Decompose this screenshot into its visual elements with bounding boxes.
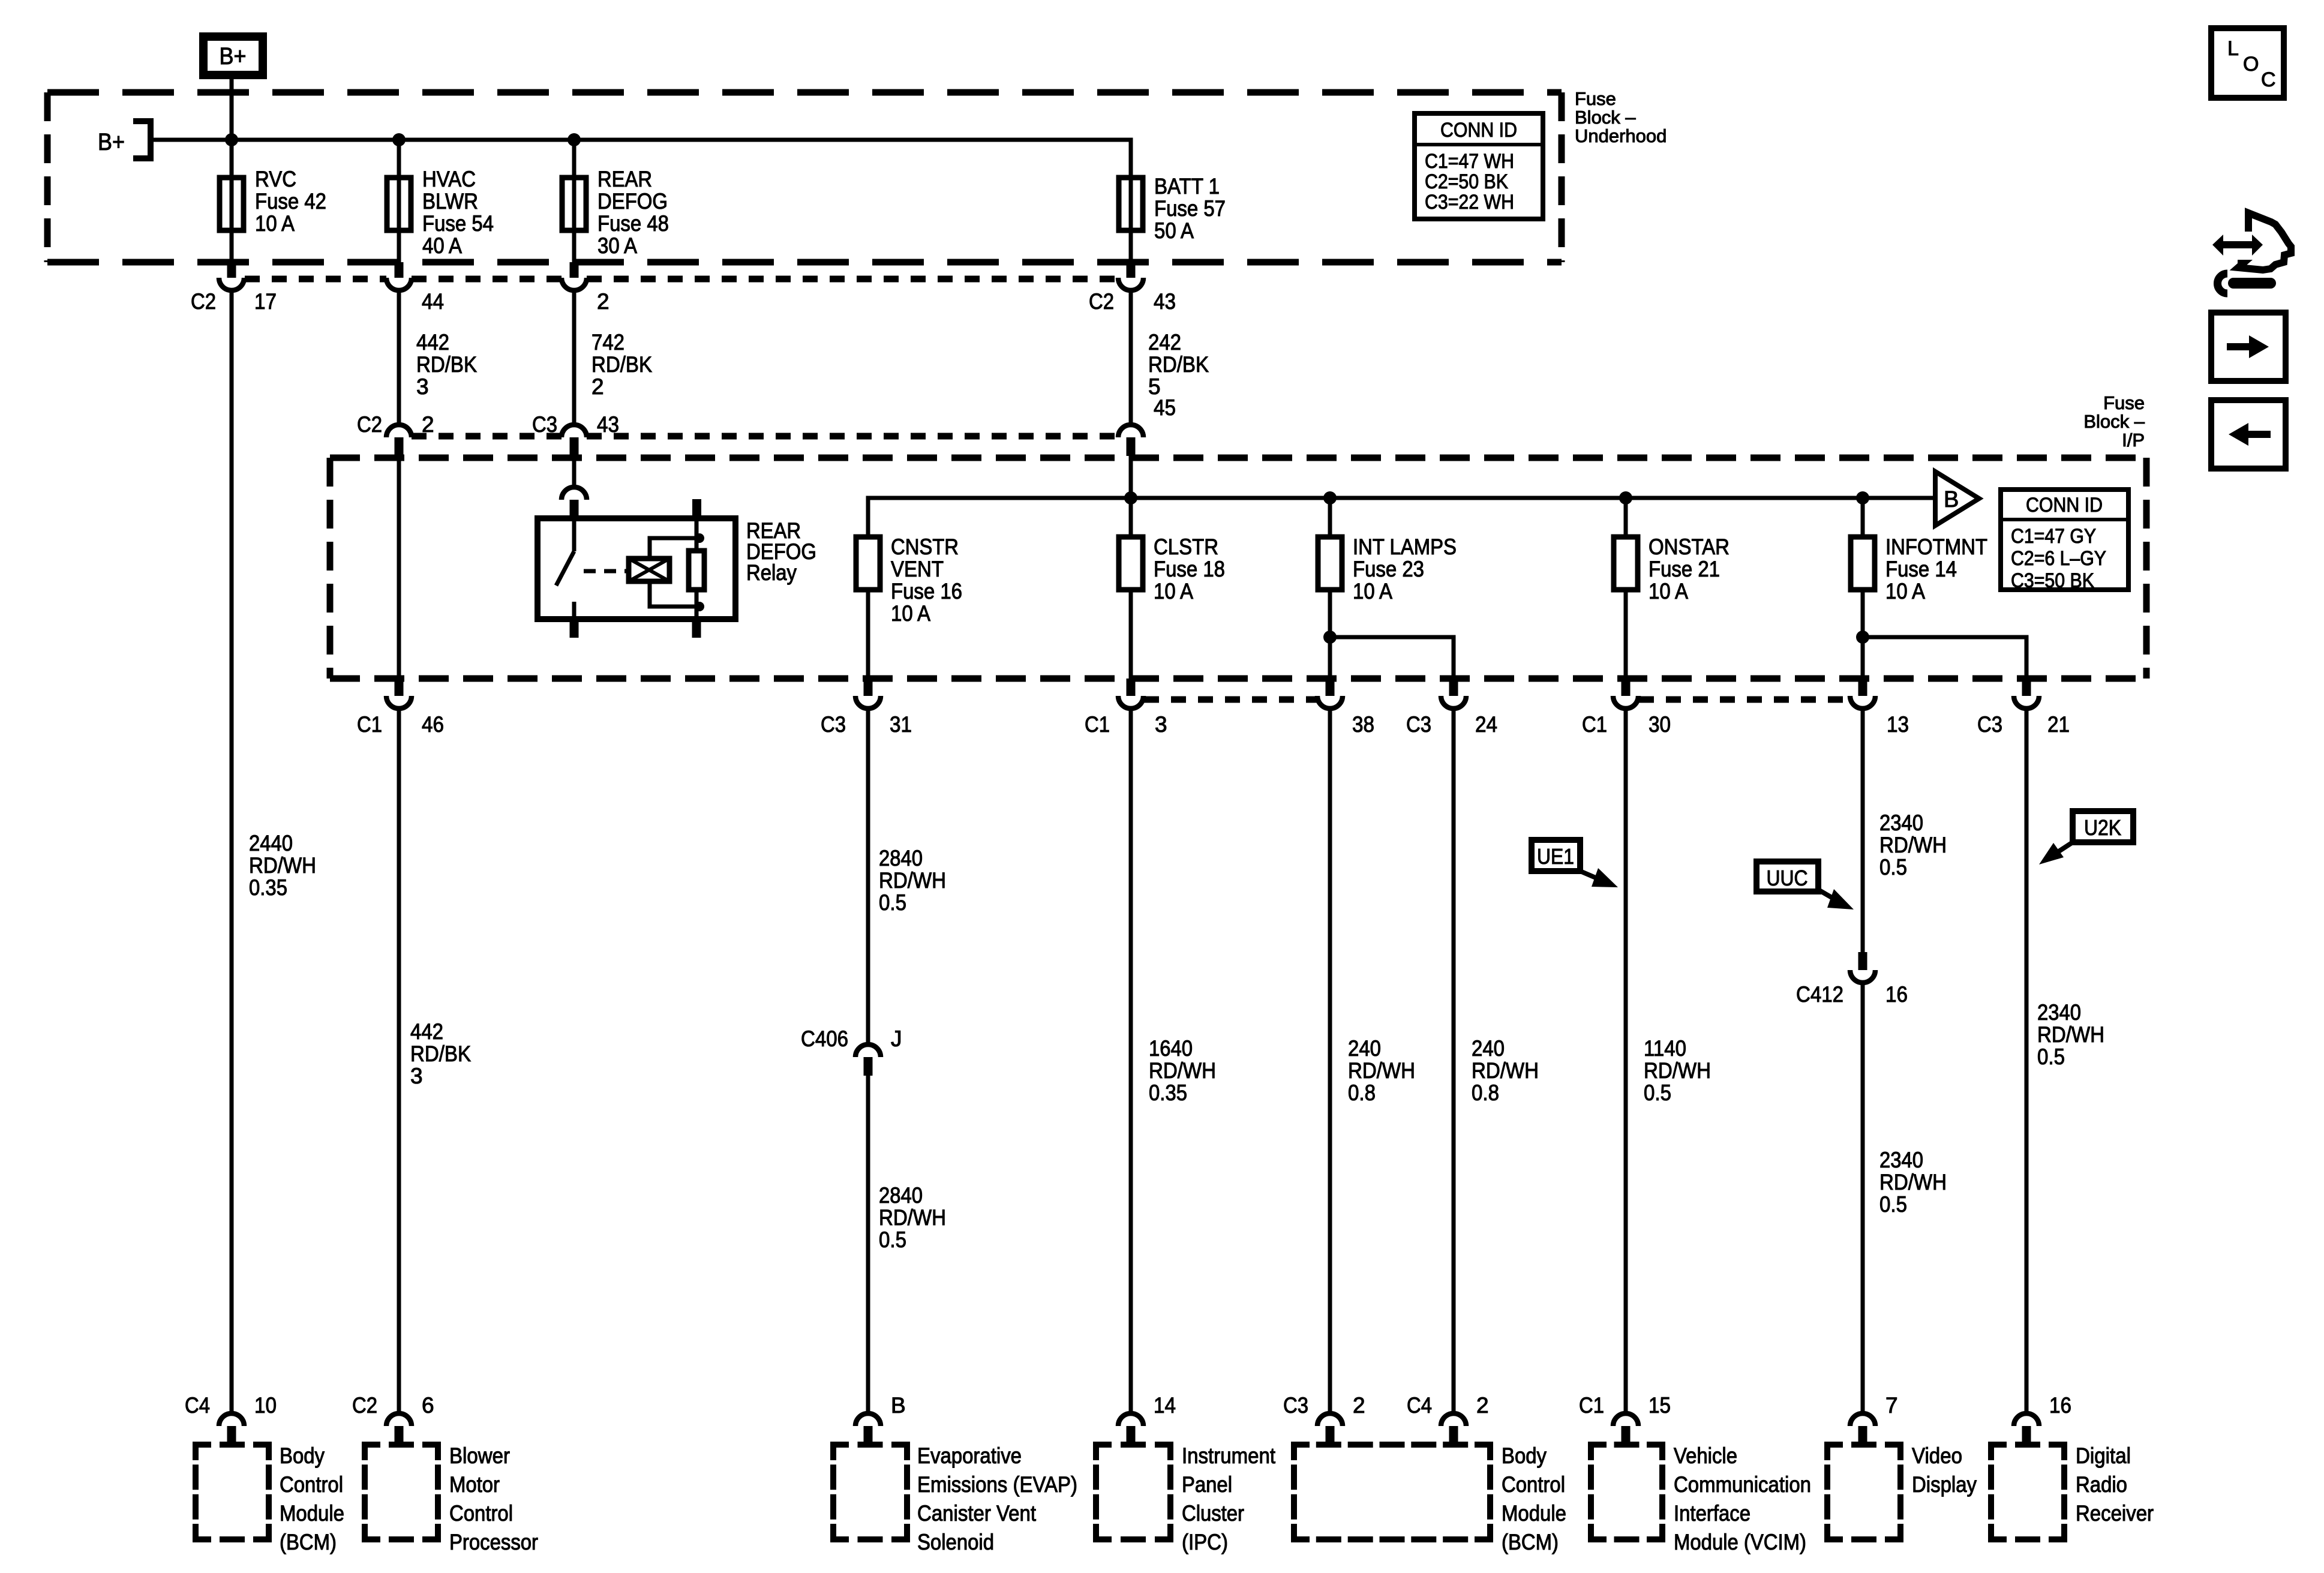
fuse BATT 1 Fuse 57 [1119,178,1143,230]
svg-text:Vehicle: Vehicle [1674,1443,1737,1468]
wire bus B+ [151,140,1131,178]
svg-text:U2K: U2K [2084,815,2121,840]
svg-text:1140: 1140 [1644,1036,1686,1061]
svg-text:2: 2 [422,412,434,437]
svg-text:24: 24 [1475,712,1497,737]
svg-text:J: J [891,1026,902,1051]
svg-text:CONN ID: CONN ID [2026,494,2103,517]
svg-text:Fuse: Fuse [1575,88,1616,109]
svg-text:C2: C2 [357,412,382,437]
connector dotted line row C2 underhood [245,276,386,283]
svg-text:2: 2 [597,289,609,314]
svg-text:Fuse 48: Fuse 48 [597,211,669,236]
svg-text:Fuse 16: Fuse 16 [891,579,962,604]
wire to rear defog relay [572,456,577,486]
connector C3 pin 43 [562,425,587,456]
svg-text:ONSTAR: ONSTAR [1649,535,1730,559]
svg-text:0.5: 0.5 [879,1227,906,1252]
fuse INFOTMNT [1851,537,1875,590]
svg-text:Module: Module [280,1501,344,1526]
svg-text:VENT: VENT [891,557,944,581]
svg-text:Fuse 14: Fuse 14 [1885,557,1957,581]
svg-text:10 A: 10 A [891,601,930,626]
svg-text:Body: Body [1502,1443,1547,1468]
svg-text:46: 46 [422,712,444,737]
module Body Control Module (BCM) right [1294,1445,1490,1539]
svg-text:2: 2 [591,374,604,399]
CONN ID table underhood [1415,113,1543,219]
svg-text:442: 442 [416,330,449,355]
svg-text:Canister Vent: Canister Vent [917,1501,1037,1526]
svg-text:CONN ID: CONN ID [1440,119,1517,142]
svg-text:10 A: 10 A [1885,579,1925,604]
connector dotted line row 2 I/P inline [412,433,562,440]
fuse CNSTR VENT [856,537,880,590]
relay REAR DEFOG [538,518,735,619]
svg-text:RD/WH: RD/WH [879,1205,946,1230]
junction bus/ONSTAR [1619,491,1632,505]
svg-text:C4: C4 [185,1393,210,1418]
fuse block I/P dashed box [330,455,2146,461]
svg-text:Fuse 18: Fuse 18 [1154,557,1225,581]
wire bus I/P battery feed [868,498,1935,537]
svg-text:RD/BK: RD/BK [416,352,477,377]
wire 2340 RD/WH to digital radio [2025,709,2029,1413]
svg-text:Interface: Interface [1674,1501,1750,1526]
svg-text:Fuse 23: Fuse 23 [1353,557,1424,581]
svg-text:(BCM): (BCM) [280,1530,337,1554]
svg-text:Emissions (EVAP): Emissions (EVAP) [917,1472,1077,1497]
module Body Control Module (BCM) left [196,1445,269,1539]
junction bus/REAR DEFOG [568,133,581,146]
svg-text:Relay: Relay [746,560,797,585]
wire bus to CLSTR fuse [1129,498,1133,537]
svg-text:(IPC): (IPC) [1182,1530,1228,1554]
connector C3 pin 31 [855,679,881,709]
svg-text:442: 442 [410,1019,443,1044]
svg-text:Underhood: Underhood [1575,125,1667,146]
relay stub pins [692,499,701,518]
svg-text:2340: 2340 [2037,1000,2081,1025]
wire circuit 442 RD/BK [397,290,401,425]
svg-text:10 A: 10 A [1649,579,1688,604]
wire RVC fuse column [230,140,234,262]
module EVAP Canister Vent Solenoid [833,1445,907,1539]
svg-text:0.5: 0.5 [1644,1080,1671,1105]
svg-text:C1=47 GY: C1=47 GY [2011,525,2096,548]
wire 2340 RD/WH upper [1861,709,1865,953]
svg-text:RD/WH: RD/WH [1149,1058,1216,1083]
wire INFOTMNT to connector 13 [1861,590,1865,679]
svg-text:Receiver: Receiver [2076,1501,2154,1526]
svg-text:31: 31 [890,712,912,737]
svg-text:Fuse 54: Fuse 54 [422,211,494,236]
svg-text:C1: C1 [1085,712,1110,737]
connector C1 pin 15 module [1613,1413,1638,1445]
wire INT LAMPS to connector 38 [1328,590,1332,679]
svg-text:RD/WH: RD/WH [1879,833,1947,857]
relay coil [629,559,669,581]
svg-text:UUC: UUC [1767,866,1808,890]
svg-text:Fuse: Fuse [2103,392,2145,413]
svg-text:30: 30 [1649,712,1671,737]
connector C2 pin 44 [386,262,412,290]
svg-text:16: 16 [1885,982,1908,1007]
svg-text:C2: C2 [191,289,216,314]
wire 1140 RD/WH to VCIM [1624,709,1628,1413]
svg-text:3: 3 [416,374,429,399]
svg-text:Blower: Blower [449,1443,510,1468]
svg-text:Block –: Block – [1575,107,1636,128]
svg-text:38: 38 [1352,712,1374,737]
connector C1 pin 30 [1613,679,1638,709]
svg-text:C1: C1 [357,712,382,737]
svg-text:B+: B+ [220,43,247,70]
wire HVAC BLWR fuse column [397,140,401,262]
wire INT LAMPS branch [1330,637,1454,679]
svg-text:13: 13 [1887,712,1909,737]
svg-text:C3: C3 [1406,712,1431,737]
svg-text:HVAC: HVAC [422,167,476,191]
wire 240 RD/WH to BCM C4 [1452,709,1456,1413]
svg-text:UE1: UE1 [1537,844,1574,869]
relay coil link dashed [584,569,629,574]
svg-text:50 A: 50 A [1154,218,1194,243]
fuse REAR DEFOG Fuse 48 [562,178,586,230]
connector C2 pin 43 [1118,262,1143,290]
svg-text:10 A: 10 A [1353,579,1392,604]
fuse CLSTR [1119,537,1143,590]
svg-text:Radio: Radio [2076,1472,2127,1497]
svg-text:0.5: 0.5 [879,890,906,915]
svg-text:RD/WH: RD/WH [2037,1022,2104,1047]
svg-text:2840: 2840 [879,846,923,870]
connector C1 pin 3 [1118,679,1143,709]
junction bus/CLSTR [1124,491,1137,505]
svg-text:B: B [1944,487,1959,512]
fuse HVAC BLWR Fuse 54 [387,178,411,230]
svg-text:3: 3 [1155,712,1167,737]
wire ONSTAR to connector [1624,590,1628,679]
wire 442 RD/BK to blower processor [397,709,401,1413]
svg-text:BLWR: BLWR [422,189,478,214]
svg-text:1640: 1640 [1149,1036,1193,1061]
svg-text:RD/BK: RD/BK [591,352,652,377]
connector dotted line row 3 [1144,697,1317,703]
svg-text:RD/WH: RD/WH [1644,1058,1711,1083]
svg-text:0.8: 0.8 [1472,1080,1499,1105]
svg-text:10: 10 [254,1393,277,1418]
B+ battery feed box [203,37,263,75]
svg-text:O: O [2243,53,2259,76]
module Instrument Panel Cluster (IPC) [1096,1445,1170,1539]
svg-text:CLSTR: CLSTR [1154,535,1218,559]
module Digital Radio Receiver [1991,1445,2064,1539]
svg-text:C3=22 WH: C3=22 WH [1425,191,1514,214]
connector C3 pin 24 [1441,679,1466,709]
svg-text:Block –: Block – [2083,411,2145,432]
svg-text:Evaporative: Evaporative [917,1443,1022,1468]
connector C412 pin 16 [1850,952,1875,983]
svg-text:CNSTR: CNSTR [891,535,959,559]
wire 1640 RD/WH to IPC [1129,709,1133,1413]
svg-text:2: 2 [1353,1393,1365,1418]
svg-text:INFOTMNT: INFOTMNT [1885,535,1987,559]
wire INFOTMNT branch [1863,637,2026,679]
svg-text:44: 44 [422,289,444,314]
svg-text:0.35: 0.35 [249,875,287,900]
svg-text:DEFOG: DEFOG [597,189,668,214]
wire REAR DEFOG fuse column [572,140,577,262]
connector C2 pin 2 (I/P) [386,425,412,456]
svg-text:742: 742 [591,330,624,355]
fuse block underhood dashed box [47,89,1562,96]
icon arrow left box [2211,400,2286,469]
svg-text:C3: C3 [821,712,846,737]
svg-text:Control: Control [1502,1472,1565,1497]
connector pin B module [855,1413,881,1445]
junction bus/HVAC BLWR [392,133,406,146]
svg-text:C3=50 BK: C3=50 BK [2011,569,2094,592]
svg-text:43: 43 [597,412,619,437]
tag UE1 [1532,840,1580,871]
svg-text:C: C [2261,68,2276,91]
connector pin 7 module [1850,1413,1875,1445]
svg-text:INT LAMPS: INT LAMPS [1353,535,1457,559]
svg-text:2340: 2340 [1879,1148,1923,1172]
svg-text:I/P: I/P [2122,430,2145,451]
connector C4 pin 10 module [219,1413,244,1445]
connector C3 pin 21 [2014,679,2039,709]
junction bus/INFOTMNT [1856,491,1869,505]
svg-text:Panel: Panel [1182,1472,1232,1497]
svg-text:Fuse 42: Fuse 42 [255,189,326,214]
svg-text:16: 16 [2049,1393,2071,1418]
connector pin 38 [1317,679,1343,709]
svg-text:C1=47 WH: C1=47 WH [1425,150,1514,173]
connector relay pin 30 [562,487,587,518]
connector C2 pin 6 module [386,1413,412,1445]
tag UUC [1756,861,1818,891]
svg-text:Display: Display [1912,1472,1977,1497]
svg-text:2: 2 [1476,1393,1489,1418]
fuse ONSTAR [1614,537,1638,590]
svg-text:C3: C3 [1283,1393,1308,1418]
module Blower Motor Control Processor [365,1445,438,1539]
svg-text:30 A: 30 A [597,233,637,258]
svg-text:43: 43 [1154,289,1176,314]
connector C1 pin 46 [386,679,412,709]
svg-text:Module: Module [1502,1501,1566,1526]
relay resistor [689,551,704,590]
svg-text:40 A: 40 A [422,233,462,258]
connector C2 pin 2 [562,262,587,290]
wire bus to CNSTR VENT fuse [866,498,870,537]
svg-text:Fuse 57: Fuse 57 [1154,196,1226,221]
relay switch contact [572,518,577,551]
svg-text:L: L [2227,37,2239,60]
svg-text:C2=6 L–GY: C2=6 L–GY [2011,547,2106,570]
B+ bracket [133,121,151,158]
svg-text:BATT 1: BATT 1 [1154,174,1220,199]
svg-text:B: B [891,1393,906,1418]
svg-text:REAR: REAR [597,167,652,191]
svg-text:RVC: RVC [255,167,296,191]
wire circuit 242 RD/BK [1129,290,1133,425]
svg-text:242: 242 [1148,330,1181,355]
icon vehicle with wrench [2212,213,2291,293]
svg-text:Fuse 21: Fuse 21 [1649,557,1720,581]
wire 2840 RD/WH upper [866,709,870,1044]
svg-text:15: 15 [1649,1393,1671,1418]
wire circuit 2440 RD/WH to BCM [230,290,234,1413]
svg-text:Instrument: Instrument [1182,1443,1276,1468]
junction INFOTMNT branch [1856,631,1869,644]
fuse RVC Fuse 42 [220,178,244,230]
junction INT LAMPS branch [1323,631,1337,644]
svg-text:2840: 2840 [879,1183,923,1208]
svg-text:0.8: 0.8 [1348,1080,1376,1105]
svg-text:B+: B+ [98,129,125,155]
module Vehicle Communication Interface Module (VCIM) [1591,1445,1662,1539]
relay coil wiring [650,538,699,559]
svg-text:6: 6 [422,1393,434,1418]
svg-text:RD/WH: RD/WH [1348,1058,1415,1083]
svg-text:Video: Video [1912,1443,1962,1468]
svg-text:C3: C3 [532,412,557,437]
icon LOC box [2211,28,2284,98]
fuse INT LAMPS [1318,537,1342,590]
svg-text:10 A: 10 A [1154,579,1193,604]
svg-text:17: 17 [254,289,277,314]
connector pin 13 [1850,679,1875,709]
svg-text:Body: Body [280,1443,325,1468]
wire 2340 RD/WH to video display [1861,983,1865,1413]
svg-text:RD/WH: RD/WH [879,868,946,893]
wire bus to INFOTMNT fuse [1861,498,1865,537]
junction bus/RVC [225,133,238,146]
svg-text:C412: C412 [1796,982,1843,1007]
connector pin 14 module [1118,1413,1143,1445]
wire bus to ONSTAR fuse [1624,498,1628,537]
svg-text:240: 240 [1348,1036,1381,1061]
svg-text:C2: C2 [1089,289,1114,314]
tag U2K [2073,811,2133,842]
wire circuit 742 RD/BK [572,290,577,425]
svg-text:Cluster: Cluster [1182,1501,1244,1526]
connector pin 16 module [2014,1413,2039,1445]
svg-text:2440: 2440 [249,831,293,855]
svg-text:C1: C1 [1579,1393,1604,1418]
svg-text:Module (VCIM): Module (VCIM) [1674,1530,1806,1554]
svg-text:C2=50 BK: C2=50 BK [1425,170,1508,193]
icon arrow right box [2211,313,2286,381]
svg-text:3: 3 [410,1064,423,1088]
wire CNSTR VENT to connector [866,590,870,679]
svg-text:Solenoid: Solenoid [917,1530,994,1554]
svg-text:10 A: 10 A [255,211,295,236]
svg-text:Motor: Motor [449,1472,500,1497]
svg-text:C406: C406 [801,1026,848,1051]
CONN ID table I/P [2001,490,2128,590]
svg-text:45: 45 [1154,395,1176,420]
wire 442 through I/P block [397,456,401,679]
svg-text:C2: C2 [352,1393,377,1418]
svg-text:Digital: Digital [2076,1443,2131,1468]
svg-text:7: 7 [1885,1393,1898,1418]
wire relay pin [572,517,577,520]
svg-text:Processor: Processor [449,1530,538,1554]
svg-text:Control: Control [449,1501,513,1526]
connector C4 pin 2 module [1441,1413,1466,1445]
svg-text:(BCM): (BCM) [1502,1530,1559,1554]
module Video Display [1827,1445,1900,1539]
svg-text:2340: 2340 [1879,810,1923,835]
svg-text:0.35: 0.35 [1149,1080,1187,1105]
svg-text:0.5: 0.5 [2037,1044,2065,1069]
svg-text:RD/BK: RD/BK [410,1041,471,1066]
svg-text:C1: C1 [1582,712,1607,737]
svg-text:RD/WH: RD/WH [1879,1170,1947,1194]
connector C3 pin 2 module [1317,1413,1343,1445]
wire 240 RD/WH to BCM C3 [1328,709,1332,1413]
svg-text:RD/BK: RD/BK [1148,352,1209,377]
svg-text:21: 21 [2047,712,2070,737]
connector C2 pin 17 [219,262,244,290]
svg-text:Control: Control [280,1472,343,1497]
svg-text:0.5: 0.5 [1879,855,1907,879]
connector C406 pin J [855,1044,881,1076]
svg-text:14: 14 [1154,1393,1176,1418]
junction bus/INT LAMPS [1323,491,1337,505]
wire BATT 1 fuse column [1129,178,1133,262]
svg-text:RD/WH: RD/WH [1472,1058,1539,1083]
wire bus to INT LAMPS fuse [1328,498,1332,537]
wire B+ box drop [230,79,234,142]
wire CLSTR to connector [1129,590,1133,679]
off-page arrow B [1935,472,1979,526]
connector pin 45 [1118,425,1143,456]
svg-text:Communication: Communication [1674,1472,1811,1497]
svg-text:C3: C3 [1977,712,2002,737]
wire 2840 RD/WH lower [866,1076,870,1413]
wire BATT 1 to I/P bus [1129,456,1133,537]
svg-text:0.5: 0.5 [1879,1192,1907,1217]
svg-text:240: 240 [1472,1036,1505,1061]
svg-text:C4: C4 [1407,1393,1432,1418]
svg-text:RD/WH: RD/WH [249,853,316,878]
